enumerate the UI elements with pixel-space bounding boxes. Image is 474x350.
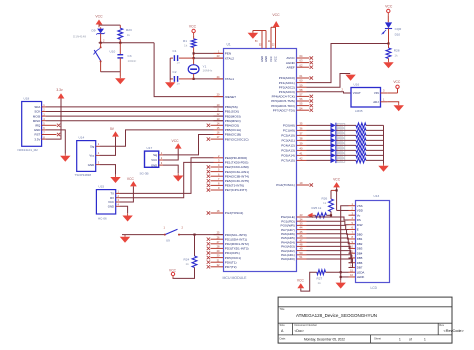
svg-text:C1: C1 (173, 49, 177, 53)
svg-text:GND: GND (108, 205, 114, 209)
pin Sig (1) of U14 (90, 142, 100, 149)
pin RX (2) of U15 (110, 194, 120, 200)
power VCC (R24) (169, 268, 177, 278)
svg-text:PD5(XCK1): PD5(XCK1) (225, 256, 241, 260)
wire U13 VDD to VCC (337, 209, 349, 211)
pin PE0(PDI-RXD0) (2) of U1 (214, 154, 248, 160)
svg-text:PD0(SCL-INT0): PD0(SCL-INT0) (225, 233, 247, 237)
svg-text:1: 1 (399, 338, 401, 342)
svg-text:Sheet: Sheet (374, 337, 381, 341)
resistor R4 (LED 1) (336, 123, 383, 128)
svg-text:PD2(RXD1-INT2): PD2(RXD1-INT2) (225, 242, 249, 246)
pin PA5(AD5) (46) of U1 (281, 234, 306, 240)
wire reset bottom row (101, 71, 121, 73)
wire PEN net (194, 52, 223, 54)
svg-text:PA0(AD0): PA0(AD0) (281, 257, 295, 261)
svg-text:R25 1k: R25 1k (312, 206, 322, 210)
pin LEDA (15) of U13 (349, 268, 365, 274)
svg-text:PF2(ADC2): PF2(ADC2) (279, 85, 295, 89)
lcd U13 box (356, 194, 390, 290)
pin PG1(/RD) (34) of U1 (281, 217, 306, 223)
svg-text:MCU MODULE: MCU MODULE (223, 276, 248, 280)
pin PB1(SCK) (11) of U1 (214, 108, 240, 114)
svg-text:1n: 1n (177, 81, 181, 85)
svg-text:PD1(SDA-INT1): PD1(SDA-INT1) (225, 237, 247, 241)
svg-text:<RevCode>: <RevCode> (444, 329, 465, 333)
ground (U18) (60, 154, 70, 162)
pin PE6(T3-INT6) (8) of U1 (207, 182, 244, 188)
ground (crystal) (165, 80, 175, 88)
pin PF5(ADC5-TMS) (56) of U1 (271, 97, 313, 103)
svg-text:16MHz: 16MHz (203, 69, 213, 73)
svg-text:GND: GND (88, 163, 94, 167)
pin PB5(OC1A) (15) of U1 (214, 126, 242, 132)
svg-text:C2: C2 (173, 70, 177, 74)
wire VCC to D10 (387, 15, 389, 22)
svg-text:R24: R24 (184, 258, 190, 262)
pin PA2(AD2) (49) of U1 (281, 247, 306, 253)
pin PA6(AD6) (45) of U1 (281, 230, 306, 236)
svg-text:PB2(MOSI): PB2(MOSI) (225, 114, 241, 118)
svg-text:LEDK: LEDK (357, 275, 365, 279)
svg-text:PF7(ADC7-TDI): PF7(ADC7-TDI) (273, 108, 295, 112)
svg-text:Vo: Vo (357, 213, 361, 217)
wire U17 Sig to U1 PB6 (163, 135, 214, 155)
svg-text:PE1(TXD0-PDO): PE1(TXD0-PDO) (225, 161, 249, 165)
led D5 (331, 143, 345, 148)
resistor R28 1k (386, 44, 400, 61)
svg-text:PD4(ICP1): PD4(ICP1) (225, 251, 240, 255)
wire SPI bus PB0-PB3 to U18 (46, 107, 223, 121)
svg-text:PC1(A9): PC1(A9) (283, 129, 295, 133)
svg-text:PC4(A12): PC4(A12) (281, 144, 295, 148)
wire U14 Sig to U1 PB5 (100, 130, 214, 146)
pin PB3(MISO) (13) of U1 (214, 117, 241, 123)
title text (280, 307, 377, 318)
svg-text:1k: 1k (318, 281, 322, 285)
pin PD5(XCK1) (30) of U1 (207, 254, 241, 260)
wire U1 to U13 pin 14 (307, 259, 353, 267)
svg-text:100nF: 100nF (128, 59, 137, 63)
wire U13 VSS to ground bus (340, 206, 349, 281)
svg-text:CQR: CQR (395, 27, 403, 31)
svg-text:PF3(ADC3): PF3(ADC3) (279, 90, 295, 94)
pin PC0(A8) (35) of U1 (283, 122, 307, 128)
wire U1 to U13 pin 10 (307, 242, 350, 248)
wire U1 to U13 pin 8 (307, 234, 349, 239)
power 3.3v (U18) (46, 88, 64, 139)
wire U1 PC0 to LED 1 (307, 124, 331, 126)
pin GND (6) of U18 (34, 126, 46, 132)
svg-text:1: 1 (424, 338, 426, 342)
svg-text:XTAL2: XTAL2 (225, 56, 235, 60)
svg-text:PD7(T2): PD7(T2) (225, 265, 237, 269)
pin PE1(TXD0-PDO) (3) of U1 (214, 159, 249, 165)
resistor R24 1k (184, 235, 197, 268)
diode D9 D1N4148 (73, 27, 105, 43)
resistor R23 1k (118, 28, 132, 43)
svg-text:PF5(ADC5-TMS): PF5(ADC5-TMS) (271, 99, 295, 103)
led D3 (331, 133, 345, 138)
svg-text:VCC: VCC (151, 158, 157, 162)
power arrow (R25 left) (307, 213, 315, 218)
svg-text:AGND: AGND (286, 61, 296, 65)
svg-text:Title: Title (280, 307, 285, 311)
svg-text:PE0(PDI-RXD0): PE0(PDI-RXD0) (225, 156, 247, 160)
svg-text:HC-06: HC-06 (98, 217, 107, 221)
capacitor C1 1n (170, 49, 193, 64)
wire U13 LEDK to ground bus (341, 276, 349, 278)
wire U1 PF1 to D10/R28 node (307, 42, 390, 82)
pin PC5(A13) (40) of U1 (281, 147, 306, 153)
svg-text:3.3v: 3.3v (56, 88, 63, 92)
wire U1 to U13 pin 4 (307, 217, 349, 220)
svg-text:PB0(/SS): PB0(/SS) (225, 105, 238, 109)
pin PA0(AD0) (51) of U1 (281, 255, 306, 261)
svg-text:U17: U17 (147, 146, 153, 150)
svg-text:1n: 1n (177, 61, 181, 65)
wire reset net to U1 (154, 43, 223, 97)
svg-text:U18: U18 (24, 97, 30, 101)
pin VIN (3) of U16 (374, 89, 387, 96)
pin PC6(A14) (41) of U1 (281, 152, 306, 158)
pin PG4(TOSC1) (19) of U1 (276, 181, 313, 187)
svg-text:PB1(SCK): PB1(SCK) (225, 110, 239, 114)
power VCC (U17) (163, 139, 182, 160)
svg-text:PC0(A8): PC0(A8) (283, 124, 295, 128)
wire R1 to PEN / XTAL2 column (193, 48, 195, 60)
svg-text:RS: RS (357, 218, 361, 222)
pin XTAL2 (23) of U1 (214, 54, 235, 60)
power VCC (LCD VDD / R26) (331, 177, 341, 210)
svg-text:DB0: DB0 (357, 232, 363, 236)
wire U1 to U13 pin 6 (307, 225, 349, 229)
pin DB4 (11) of U13 (349, 249, 363, 255)
led D1 (331, 123, 345, 128)
wire U17 GND to ground (163, 165, 178, 173)
svg-text:VCC: VCC (172, 139, 180, 143)
resistor R10 (LED 7) (336, 153, 383, 158)
svg-text:PEN: PEN (225, 52, 231, 56)
pin PB7(OC2/OC1C) (17) of U1 (207, 135, 249, 141)
resistor R1 1k (183, 35, 196, 47)
pin PB2(MOSI) (12) of U1 (214, 112, 241, 118)
svg-text:DB1: DB1 (357, 237, 363, 241)
pin ADJ (1) of U16 (373, 97, 387, 104)
pin PD6(T1) (31) of U1 (207, 258, 237, 264)
pin XTAL1 (24) of U1 (214, 75, 235, 81)
pin DB1 (8) of U13 (349, 235, 363, 241)
svg-text:DB6: DB6 (357, 261, 363, 265)
svg-text:PE6(T3-INT6): PE6(T3-INT6) (225, 184, 244, 188)
wire LED bank ground bus (383, 125, 385, 163)
svg-text:GND: GND (151, 163, 157, 167)
wire U15 TX to U1 PE0 (120, 158, 214, 194)
pin PD7(T2) (32) of U1 (207, 263, 237, 269)
svg-text:MISO: MISO (33, 119, 41, 123)
pin Vo (3) of U13 (349, 211, 361, 217)
svg-text:1k: 1k (186, 262, 190, 266)
svg-text:PE5(OC3C-INT5): PE5(OC3C-INT5) (225, 179, 249, 183)
svg-text:R23: R23 (126, 28, 132, 32)
svg-text:PB6(OC1B): PB6(OC1B) (225, 133, 241, 137)
pin GND (3) of U17 (151, 161, 163, 167)
pin AGND (63) of U1 (286, 59, 313, 65)
svg-text:VCC: VCC (385, 4, 393, 8)
wire U1 to U13 pin 12 (307, 251, 351, 258)
wire U1 to U13 pin 11 (307, 246, 350, 253)
svg-text:DB4: DB4 (357, 251, 363, 255)
svg-text:VCC: VCC (333, 177, 341, 181)
pin VCC (3) of U15 (108, 198, 120, 204)
crystal Y1 16MHz (188, 58, 213, 80)
wire U1 PC4 to LED 5 (307, 144, 331, 146)
pin PD1(SDA-INT1) (26) of U1 (207, 235, 247, 241)
wire U1 PC7 to LED 8 (307, 159, 331, 161)
svg-text:VSS: VSS (357, 204, 363, 208)
ground (U1 top) (248, 31, 259, 39)
pin SDA (1) of U18 (34, 103, 46, 109)
svg-text:/RESET: /RESET (225, 95, 236, 99)
svg-text:U1: U1 (227, 42, 231, 46)
wire U1 PC1 to LED 2 (307, 129, 331, 131)
svg-text:VCC: VCC (95, 15, 103, 19)
power 5V (U14) (100, 127, 119, 155)
wire U18 GND to ground (46, 130, 65, 154)
pin PE5(OC3C-INT5) (7) of U1 (207, 177, 249, 183)
resistor R26 1k (322, 190, 334, 215)
svg-text:1k: 1k (184, 44, 188, 48)
pin MOSI (3) of U18 (33, 112, 46, 118)
svg-text:D10: D10 (395, 33, 401, 37)
pin PD4(ICP1) (29) of U1 (207, 249, 240, 255)
pin GND (4) of U15 (108, 202, 120, 208)
switch U9 (164, 225, 184, 242)
svg-text:R28: R28 (394, 48, 400, 52)
pin RST (7) of U18 (35, 131, 46, 137)
ground (LED bank) (378, 164, 388, 172)
svg-text:PD3(TXD1-INT3): PD3(TXD1-INT3) (225, 247, 249, 251)
buzzer U17 box (140, 146, 159, 175)
pin IRQ no-connect X (46, 124, 60, 127)
svg-text:PB5(OC1A): PB5(OC1A) (225, 128, 241, 132)
svg-text:SCK: SCK (34, 110, 40, 114)
power VCC (U16 VIN) (387, 80, 401, 93)
pin PF7(ADC7-TDI) (54) of U1 (273, 106, 313, 112)
svg-text:Monday, December 05, 2022: Monday, December 05, 2022 (304, 338, 345, 342)
resistor R7 (LED 4) (336, 138, 383, 143)
led D10 CQR (382, 22, 403, 43)
svg-text:PC6(A14): PC6(A14) (281, 154, 295, 158)
pin PF6(ADC6-TDO) (55) of U1 (271, 102, 313, 108)
pin PC3(A11) (38) of U1 (281, 137, 306, 143)
svg-text:NRF24L01_M2: NRF24L01_M2 (18, 148, 39, 152)
ground (U16 ADJ) (394, 103, 404, 111)
svg-text:ADJ: ADJ (373, 100, 379, 104)
svg-text:of: of (409, 338, 412, 342)
pin TX (1) of U15 (110, 190, 120, 196)
svg-text:Rev: Rev (439, 323, 444, 327)
wire U16 ADJ to ground (387, 102, 398, 103)
svg-text:LM35: LM35 (355, 109, 363, 113)
svg-text:PF4(ADC4-TCK): PF4(ADC4-TCK) (272, 95, 295, 99)
power VCC (reset circuit) (95, 15, 103, 28)
svg-text:PD6(T1): PD6(T1) (225, 260, 237, 264)
led D2 (331, 128, 345, 133)
size/doc/rev row text (280, 323, 465, 333)
led D6 (331, 148, 345, 153)
pin PA7(AD7) (44) of U1 (281, 226, 306, 232)
svg-text:PF0(ADC0): PF0(ADC0) (279, 76, 295, 80)
ground (U13 VSS) (336, 280, 346, 288)
power VCC (U15) (120, 177, 137, 202)
resistor R9 (LED 6) (336, 148, 383, 153)
pin RST no-connect X (46, 133, 60, 136)
svg-text:VCC: VCC (269, 56, 273, 62)
pin AREF (62) of U1 (287, 63, 313, 69)
pin PE3(OC3A-AIN1) (5) of U1 (207, 168, 249, 174)
pin DB2 (9) of U13 (349, 240, 363, 246)
svg-text:SG-3B: SG-3B (140, 171, 149, 175)
svg-text:R/W: R/W (357, 223, 363, 227)
svg-text:VCC: VCC (297, 279, 305, 283)
svg-text:VCC: VCC (169, 268, 177, 272)
ground (U14) (110, 175, 120, 183)
title block frame (278, 297, 452, 343)
pin PA1(AD1) (50) of U1 (281, 251, 306, 257)
svg-text:ATMEGA128_Device_SEOGONGHYUN: ATMEGA128_Device_SEOGONGHYUN (296, 313, 377, 318)
svg-text:R27: R27 (317, 277, 323, 281)
wire R27 to VCC (301, 272, 317, 291)
pin PF1(ADC1) (60) of U1 (279, 79, 307, 85)
mcu U1 ATmega128 box (223, 42, 297, 279)
power VCC (R27) (297, 279, 305, 289)
svg-text:D1N4148: D1N4148 (73, 35, 86, 39)
svg-text:U14: U14 (79, 136, 85, 140)
pin VOUT of U16 (353, 91, 361, 95)
pin PG3(TOSC2) (18) of U1 (207, 209, 244, 215)
bluetooth U15 HC-06 box (96, 185, 115, 221)
wire U1 PC2 to LED 3 (307, 134, 331, 136)
svg-text:PC3(A11): PC3(A11) (281, 139, 294, 143)
pin DB3 (10) of U13 (349, 245, 363, 251)
svg-text:VCC: VCC (393, 80, 401, 84)
pin GND (3) of U14 (88, 160, 100, 166)
wire U1 to U13 pin 13 (307, 255, 352, 263)
svg-text:GND: GND (264, 56, 268, 62)
capacitor C3 100nF (117, 43, 136, 72)
wire C1/C2 ground rail (169, 58, 171, 80)
led D7 (331, 153, 345, 158)
pin PC2(A10) (37) of U1 (281, 132, 306, 138)
svg-text:U15: U15 (98, 185, 104, 189)
svg-text:RST: RST (35, 133, 41, 137)
wire U1 to U13 pin 7 (307, 230, 349, 235)
pin E (6) of U13 (349, 226, 359, 232)
power VCC (U1 top) (272, 13, 280, 27)
wire XTAL2 net (194, 57, 223, 59)
svg-text:MOSI: MOSI (33, 114, 41, 118)
pin VSS (1) of U13 (349, 202, 363, 208)
svg-text:U16: U16 (354, 83, 360, 87)
svg-text:AREF: AREF (287, 65, 295, 69)
pin VCC (2) of U17 (151, 156, 163, 162)
svg-text:VCC: VCC (127, 177, 135, 181)
svg-text:PC7(A15): PC7(A15) (281, 159, 295, 163)
pin VDD (2) of U13 (349, 207, 363, 213)
svg-text:LEDA: LEDA (357, 270, 365, 274)
pin PE7(ICP3-INT7) (9) of U1 (207, 186, 248, 192)
svg-text:Document Number: Document Number (295, 323, 318, 327)
pin DB5 (12) of U13 (349, 254, 363, 260)
ground (PF2 net) (345, 75, 355, 81)
svg-text:1k: 1k (323, 201, 327, 205)
wire U1 PC6 to LED 7 (307, 154, 331, 156)
pin LEDK (16) of U13 (349, 273, 365, 279)
resistor R5 (LED 2) (336, 128, 383, 133)
pin PG0(/WR) (33) of U1 (281, 222, 307, 228)
node reset junction row (99, 39, 155, 44)
svg-text:Sig: Sig (90, 145, 95, 149)
pin PB6(OC1B) (16) of U1 (214, 131, 242, 137)
ir receiver U14 box (75, 136, 96, 177)
svg-text:U13: U13 (374, 194, 380, 198)
svg-text:VIN: VIN (374, 91, 379, 95)
svg-text:1k: 1k (394, 54, 398, 58)
wire U1 PF3 to U16 VOUT (307, 87, 352, 93)
svg-text:PE3(OC3A-AIN1): PE3(OC3A-AIN1) (225, 170, 249, 174)
rf module U18 NRF24L01 box (18, 97, 42, 152)
pin PF2(ADC2) (59) of U1 (279, 83, 307, 89)
wire U1 PF2 to ground arrow (307, 74, 351, 88)
svg-text:3.3V: 3.3V (34, 137, 40, 141)
svg-text:PB4(OC0): PB4(OC0) (225, 124, 239, 128)
pin VCC/GND top stubs of U1 (253, 27, 278, 62)
resistor R6 (LED 3) (336, 133, 383, 138)
ground (U17) (173, 173, 183, 181)
wire U14 GND to ground (100, 165, 116, 175)
svg-text:Size: Size (280, 323, 286, 327)
svg-text:DB2: DB2 (357, 242, 363, 246)
pin DB7 (14) of U13 (349, 264, 363, 270)
svg-text:PC5(A13): PC5(A13) (281, 149, 295, 153)
pin PE4(OC3B-INT4) (6) of U1 (207, 172, 249, 178)
svg-text:PF6(ADC6-TDO): PF6(ADC6-TDO) (271, 104, 295, 108)
svg-text:VDD: VDD (357, 209, 363, 213)
resistor R27 1k (317, 270, 349, 285)
svg-text:PE7(ICP3-INT7): PE7(ICP3-INT7) (225, 188, 248, 192)
pin Sig (1) of U17 (153, 151, 163, 157)
svg-text:E: E (357, 228, 359, 232)
pin R/W (5) of U13 (349, 221, 363, 227)
svg-text:PC2(A10): PC2(A10) (281, 134, 295, 138)
svg-text:U10: U10 (110, 50, 116, 54)
pin PE2(XCK0-AIN0) (4) of U1 (207, 163, 249, 169)
svg-text:PG4(TOSC1): PG4(TOSC1) (276, 183, 295, 187)
wire XTAL1 net (194, 78, 223, 80)
power VCC (D10) (385, 4, 393, 15)
pin /RESET (20) of U1 (214, 93, 237, 99)
pin MISO (4) of U18 (33, 117, 46, 123)
ground (U9 switch) (120, 235, 130, 243)
wire R24 to VCC (173, 268, 195, 279)
wire switch U9 to U1 PD0 (180, 234, 223, 236)
pin RS (4) of U13 (349, 216, 361, 222)
ground (U15) (122, 213, 132, 221)
svg-text:PE4(OC3B-INT4): PE4(OC3B-INT4) (225, 174, 249, 178)
svg-text:DB7: DB7 (357, 266, 363, 270)
wire U1 PC5 to LED 6 (307, 149, 331, 151)
